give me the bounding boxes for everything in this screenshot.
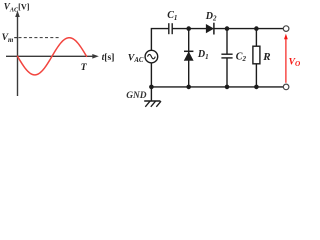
sine waveform [18, 38, 87, 75]
V_O arrow [284, 34, 288, 83]
resistor R [253, 46, 260, 64]
node: bottom junction D1 [186, 85, 191, 90]
AC source VAC [145, 50, 158, 63]
terminal: output top [283, 26, 289, 32]
diode D1 symbol [184, 51, 193, 60]
V_m tick on axis [14, 37, 18, 39]
wire: source bottom to ground node [150, 63, 152, 87]
svg-text:R: R [262, 51, 270, 63]
wire: top-left corner, source top to C1 [151, 29, 168, 51]
terminal: output bottom [283, 84, 289, 90]
svg-text:T: T [81, 62, 88, 73]
wire: C1 to D2 anode [173, 28, 207, 30]
y-axis (V_AC axis) [15, 11, 20, 97]
svg-text:GND: GND [126, 91, 147, 101]
bottom rail wire [151, 86, 283, 88]
diode D1 branch wires [188, 29, 190, 87]
diode D2 [206, 23, 214, 35]
capacitor C1 [169, 23, 172, 34]
node: top junction C2 [225, 26, 230, 31]
node: bottom junction C2 [225, 85, 230, 90]
node: top junction D1 [186, 26, 191, 31]
svg-text:t[s]: t[s] [102, 52, 115, 63]
capacitor C2 branch wires [226, 29, 228, 54]
wire: D2 cathode to right terminal [214, 28, 283, 30]
capacitor C2 [221, 54, 232, 58]
node: bottom junction R [254, 85, 259, 90]
dashed V_m level line [19, 37, 60, 39]
node: bottom junction source/GND [149, 85, 154, 90]
resistor R branch wires [255, 29, 257, 47]
x-axis (t axis) [6, 54, 99, 59]
node: top junction R [254, 26, 259, 31]
ground symbol [144, 87, 161, 107]
